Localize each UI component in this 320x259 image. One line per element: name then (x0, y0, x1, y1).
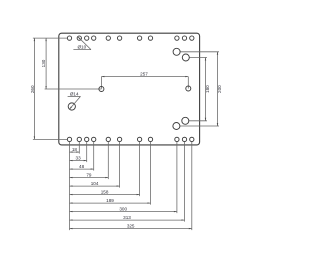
svg-text:Ø14: Ø14 (70, 92, 79, 97)
svg-text:189: 189 (106, 198, 114, 203)
svg-text:79: 79 (86, 173, 92, 178)
svg-text:257: 257 (140, 72, 148, 77)
svg-text:200: 200 (217, 85, 222, 93)
svg-text:180: 180 (205, 85, 210, 93)
svg-text:Ø10: Ø10 (77, 45, 86, 50)
svg-text:313: 313 (123, 215, 131, 220)
svg-text:33: 33 (76, 156, 82, 161)
svg-text:158: 158 (101, 190, 109, 195)
svg-text:130: 130 (41, 59, 46, 67)
svg-text:260: 260 (30, 85, 35, 93)
svg-text:104: 104 (91, 181, 99, 186)
svg-text:18: 18 (72, 147, 78, 152)
svg-text:48: 48 (79, 164, 85, 169)
svg-text:300: 300 (119, 207, 127, 212)
svg-text:325: 325 (127, 224, 135, 229)
